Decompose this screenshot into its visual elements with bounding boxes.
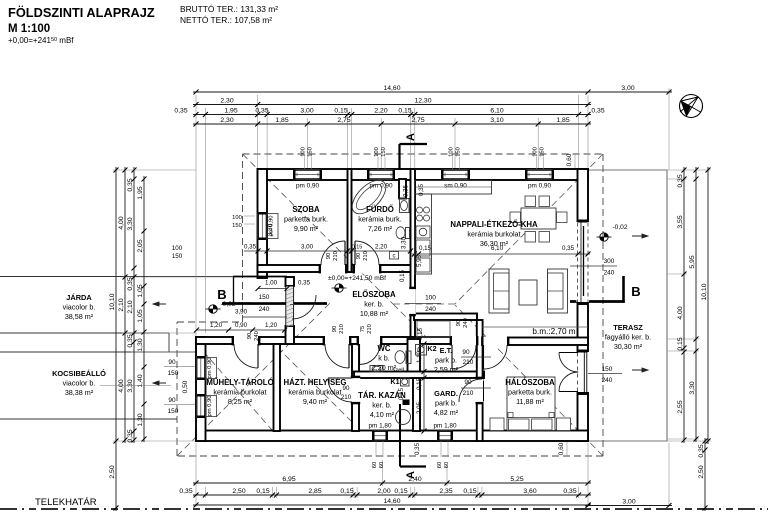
svg-text:3,00: 3,00 bbox=[622, 498, 635, 505]
svg-text:3,00: 3,00 bbox=[301, 244, 314, 251]
svg-text:3,30: 3,30 bbox=[127, 379, 134, 392]
svg-text:MŰHELY-TÁROLÓ: MŰHELY-TÁROLÓ bbox=[206, 378, 273, 387]
svg-text:3,30: 3,30 bbox=[127, 217, 134, 230]
svg-text:90: 90 bbox=[456, 320, 462, 326]
svg-text:150: 150 bbox=[456, 147, 462, 157]
svg-text:3,60: 3,60 bbox=[523, 488, 536, 495]
svg-text:3,00: 3,00 bbox=[300, 107, 313, 114]
svg-text:30,30 m²: 30,30 m² bbox=[614, 342, 643, 351]
svg-text:parketta burk.: parketta burk. bbox=[508, 388, 552, 397]
svg-text:100: 100 bbox=[533, 147, 539, 157]
svg-text:KOCSIBEÁLLÓ: KOCSIBEÁLLÓ bbox=[52, 369, 106, 378]
svg-text:5,25: 5,25 bbox=[510, 476, 523, 483]
svg-text:0,35: 0,35 bbox=[127, 334, 134, 347]
svg-text:210: 210 bbox=[341, 394, 352, 401]
svg-text:+0,00=+24150 mBf: +0,00=+24150 mBf bbox=[8, 36, 74, 45]
svg-text:150: 150 bbox=[602, 366, 613, 373]
svg-text:90: 90 bbox=[247, 333, 253, 339]
svg-text:210: 210 bbox=[363, 251, 369, 261]
svg-text:3,30: 3,30 bbox=[267, 223, 274, 236]
svg-text:90: 90 bbox=[462, 349, 470, 356]
svg-text:2,75: 2,75 bbox=[337, 117, 350, 124]
svg-text:1,05: 1,05 bbox=[137, 309, 144, 322]
svg-text:NETTÓ TER.: 107,58 m²: NETTÓ TER.: 107,58 m² bbox=[180, 15, 272, 25]
svg-text:240: 240 bbox=[259, 306, 270, 313]
svg-text:2,85: 2,85 bbox=[308, 488, 321, 495]
svg-text:0,15: 0,15 bbox=[334, 107, 347, 114]
svg-text:parketta burk.: parketta burk. bbox=[284, 215, 328, 224]
svg-text:HÁLÓSZOBA: HÁLÓSZOBA bbox=[505, 378, 555, 387]
svg-text:1,30: 1,30 bbox=[137, 413, 144, 426]
svg-text:park b.: park b. bbox=[435, 399, 457, 408]
svg-text:100: 100 bbox=[172, 245, 183, 252]
svg-text:150: 150 bbox=[168, 370, 179, 377]
svg-text:2,20: 2,20 bbox=[375, 244, 388, 251]
svg-text:0,15: 0,15 bbox=[398, 107, 411, 114]
svg-text:k b.: k b. bbox=[378, 354, 390, 363]
svg-text:100: 100 bbox=[232, 215, 242, 221]
svg-text:90: 90 bbox=[326, 253, 332, 259]
svg-text:1,95: 1,95 bbox=[137, 186, 144, 199]
svg-text:10,10: 10,10 bbox=[109, 293, 116, 310]
svg-text:FÖLDSZINTI ALAPRAJZ: FÖLDSZINTI ALAPRAJZ bbox=[8, 5, 155, 20]
svg-text:szell.: szell. bbox=[392, 368, 406, 374]
svg-text:1,05: 1,05 bbox=[137, 284, 144, 297]
svg-text:2,35: 2,35 bbox=[439, 488, 452, 495]
svg-text:100: 100 bbox=[425, 295, 436, 302]
svg-text:0,15: 0,15 bbox=[352, 245, 363, 251]
svg-text:0,35: 0,35 bbox=[403, 184, 410, 197]
svg-text:0,35: 0,35 bbox=[562, 245, 575, 252]
svg-text:90: 90 bbox=[356, 253, 362, 259]
svg-text:240: 240 bbox=[604, 270, 615, 277]
svg-text:0,35: 0,35 bbox=[179, 488, 192, 495]
svg-text:12,30: 12,30 bbox=[414, 97, 431, 104]
svg-text:38,38 m²: 38,38 m² bbox=[65, 388, 94, 397]
svg-text:0,15: 0,15 bbox=[463, 488, 476, 495]
svg-text:210: 210 bbox=[333, 251, 339, 261]
svg-text:0,15: 0,15 bbox=[677, 337, 684, 350]
svg-text:4,00: 4,00 bbox=[118, 216, 125, 229]
svg-text:±0,00=+241,50 mBf: ±0,00=+241,50 mBf bbox=[328, 275, 386, 282]
svg-text:K2: K2 bbox=[427, 344, 436, 353]
svg-text:2,30: 2,30 bbox=[220, 117, 233, 124]
svg-text:pm 0,90: pm 0,90 bbox=[296, 183, 320, 190]
svg-text:0,35: 0,35 bbox=[127, 277, 134, 290]
svg-text:M 1:100: M 1:100 bbox=[8, 23, 50, 35]
svg-text:B: B bbox=[631, 284, 640, 299]
svg-text:2,05: 2,05 bbox=[137, 239, 144, 252]
svg-text:0,15: 0,15 bbox=[416, 377, 423, 390]
svg-text:1,30: 1,30 bbox=[137, 338, 144, 351]
svg-text:14,60: 14,60 bbox=[383, 498, 400, 505]
svg-text:14,60: 14,60 bbox=[383, 85, 400, 92]
svg-text:38,58 m²: 38,58 m² bbox=[65, 312, 94, 321]
svg-text:210: 210 bbox=[463, 390, 474, 397]
svg-text:3,00: 3,00 bbox=[621, 85, 634, 92]
svg-text:0,35: 0,35 bbox=[414, 442, 421, 455]
svg-text:3,10: 3,10 bbox=[490, 117, 503, 124]
svg-text:0,35: 0,35 bbox=[591, 107, 604, 114]
svg-text:4,00: 4,00 bbox=[677, 306, 684, 319]
svg-text:ELŐSZOBA: ELŐSZOBA bbox=[352, 290, 396, 299]
svg-text:4,00: 4,00 bbox=[118, 379, 125, 392]
svg-text:TERASZ: TERASZ bbox=[613, 323, 643, 332]
svg-text:100: 100 bbox=[374, 147, 380, 157]
svg-text:0,15: 0,15 bbox=[417, 327, 424, 340]
svg-text:60: 60 bbox=[379, 462, 385, 468]
svg-text:1,85: 1,85 bbox=[275, 117, 288, 124]
svg-text:JÁRDA: JÁRDA bbox=[66, 293, 92, 302]
svg-text:viacolor b.: viacolor b. bbox=[63, 379, 96, 388]
svg-text:0,15: 0,15 bbox=[394, 488, 407, 495]
svg-text:75: 75 bbox=[360, 326, 366, 332]
svg-text:6,95: 6,95 bbox=[282, 476, 295, 483]
svg-text:2,00: 2,00 bbox=[377, 488, 390, 495]
svg-text:100: 100 bbox=[449, 147, 455, 157]
svg-text:pm 0,90: pm 0,90 bbox=[207, 396, 213, 417]
svg-text:0,35: 0,35 bbox=[298, 280, 311, 287]
svg-text:3,30: 3,30 bbox=[689, 381, 696, 394]
svg-text:150: 150 bbox=[232, 223, 242, 229]
svg-text:pm 0,90: pm 0,90 bbox=[528, 183, 552, 190]
svg-text:150: 150 bbox=[540, 147, 546, 157]
svg-text:150: 150 bbox=[308, 147, 314, 157]
svg-text:2,50: 2,50 bbox=[232, 488, 245, 495]
svg-text:0,15: 0,15 bbox=[399, 269, 406, 282]
svg-text:240: 240 bbox=[254, 331, 260, 341]
svg-text:kerámia burkolat: kerámia burkolat bbox=[467, 230, 520, 239]
svg-text:kerámia burkolat: kerámia burkolat bbox=[213, 388, 266, 397]
svg-text:240: 240 bbox=[602, 377, 613, 384]
svg-text:2,30: 2,30 bbox=[220, 97, 233, 104]
svg-text:b.m.:2,70 m: b.m.:2,70 m bbox=[532, 327, 575, 336]
svg-text:A: A bbox=[405, 133, 417, 141]
svg-text:2,55: 2,55 bbox=[677, 400, 684, 413]
svg-text:240: 240 bbox=[425, 306, 436, 313]
svg-text:1,20: 1,20 bbox=[265, 322, 278, 329]
svg-text:0,15: 0,15 bbox=[256, 488, 269, 495]
svg-text:HÁZT. HELYISÉG: HÁZT. HELYISÉG bbox=[284, 378, 347, 387]
svg-text:2,10: 2,10 bbox=[118, 298, 125, 311]
svg-text:3,90: 3,90 bbox=[235, 309, 248, 316]
svg-text:0,15: 0,15 bbox=[340, 488, 353, 495]
svg-text:4,10 m²: 4,10 m² bbox=[370, 410, 395, 419]
svg-text:60: 60 bbox=[444, 462, 450, 468]
svg-text:90: 90 bbox=[168, 397, 176, 404]
svg-text:0,35: 0,35 bbox=[677, 174, 684, 187]
svg-text:TELEKHATÁR: TELEKHATÁR bbox=[35, 497, 97, 508]
svg-text:sm 0,90: sm 0,90 bbox=[444, 183, 467, 190]
svg-text:150: 150 bbox=[172, 253, 183, 260]
svg-text:210: 210 bbox=[339, 324, 345, 334]
svg-text:WC: WC bbox=[378, 344, 391, 353]
svg-text:c: c bbox=[393, 254, 396, 260]
svg-text:park b.: park b. bbox=[435, 356, 457, 365]
svg-text:2,75: 2,75 bbox=[411, 117, 424, 124]
svg-text:3,55: 3,55 bbox=[677, 215, 684, 228]
svg-text:TÁR. KAZÁN: TÁR. KAZÁN bbox=[358, 391, 406, 400]
svg-text:60: 60 bbox=[372, 462, 378, 468]
svg-text:pm 1,80: pm 1,80 bbox=[368, 423, 392, 430]
svg-text:0,50: 0,50 bbox=[182, 380, 189, 393]
svg-text:90: 90 bbox=[332, 326, 338, 332]
svg-text:0,35: 0,35 bbox=[255, 107, 268, 114]
svg-text:ker. b.: ker. b. bbox=[364, 300, 384, 309]
svg-text:240: 240 bbox=[463, 318, 469, 328]
svg-text:pm 0,90: pm 0,90 bbox=[207, 358, 213, 379]
svg-text:3,30: 3,30 bbox=[401, 236, 408, 249]
svg-text:1,85: 1,85 bbox=[556, 117, 569, 124]
svg-text:K1: K1 bbox=[390, 377, 399, 386]
svg-text:ker. b.: ker. b. bbox=[372, 401, 392, 410]
svg-text:kerámia burk.: kerámia burk. bbox=[358, 215, 402, 224]
svg-text:BRUTTÓ TER.: 131,33 m²: BRUTTÓ TER.: 131,33 m² bbox=[180, 4, 278, 14]
svg-text:150: 150 bbox=[381, 147, 387, 157]
svg-text:36,30 m²: 36,30 m² bbox=[480, 239, 509, 248]
svg-text:0,35: 0,35 bbox=[244, 244, 257, 251]
svg-text:NAPPALI-ÉTKEZŐ-KHA: NAPPALI-ÉTKEZŐ-KHA bbox=[450, 220, 538, 229]
svg-text:60: 60 bbox=[437, 462, 443, 468]
svg-text:0,35: 0,35 bbox=[698, 444, 705, 457]
svg-text:9,90 m²: 9,90 m² bbox=[294, 224, 319, 233]
svg-text:-0,02: -0,02 bbox=[612, 224, 627, 231]
svg-text:300: 300 bbox=[604, 258, 615, 265]
svg-text:0,35: 0,35 bbox=[127, 178, 134, 191]
svg-text:90: 90 bbox=[168, 359, 176, 366]
svg-text:4,82 m²: 4,82 m² bbox=[434, 408, 459, 417]
svg-text:150: 150 bbox=[168, 408, 179, 415]
svg-text:viacolor b.: viacolor b. bbox=[63, 303, 96, 312]
svg-text:FÜRDŐ: FÜRDŐ bbox=[366, 205, 394, 214]
svg-text:1,20: 1,20 bbox=[210, 322, 223, 329]
svg-text:0,60: 0,60 bbox=[566, 153, 573, 166]
svg-text:6,10: 6,10 bbox=[490, 107, 503, 114]
svg-text:8,25 m²: 8,25 m² bbox=[228, 397, 253, 406]
svg-text:90: 90 bbox=[464, 379, 472, 386]
svg-text:2,20: 2,20 bbox=[374, 107, 387, 114]
svg-text:2,05: 2,05 bbox=[416, 401, 423, 414]
svg-text:B: B bbox=[217, 287, 226, 302]
svg-text:11,88 m²: 11,88 m² bbox=[516, 397, 544, 406]
svg-text:2,10: 2,10 bbox=[127, 300, 134, 313]
svg-text:fagyálló ker. b.: fagyálló ker. b. bbox=[605, 333, 651, 342]
svg-text:0,35: 0,35 bbox=[563, 488, 576, 495]
svg-text:1,95: 1,95 bbox=[224, 107, 237, 114]
svg-text:E.T.: E.T. bbox=[440, 346, 453, 355]
svg-text:9,40 m²: 9,40 m² bbox=[303, 397, 328, 406]
svg-text:A: A bbox=[405, 471, 417, 479]
svg-text:10,10: 10,10 bbox=[701, 283, 708, 300]
svg-text:7,26 m²: 7,26 m² bbox=[368, 224, 393, 233]
svg-text:0,35: 0,35 bbox=[174, 107, 187, 114]
svg-text:10,88 m²: 10,88 m² bbox=[360, 309, 389, 318]
svg-text:5,95: 5,95 bbox=[689, 255, 696, 268]
svg-text:210: 210 bbox=[463, 359, 474, 366]
svg-text:2,59 m²: 2,59 m² bbox=[434, 365, 459, 374]
svg-text:GARD.: GARD. bbox=[434, 389, 458, 398]
svg-text:210: 210 bbox=[367, 324, 373, 334]
svg-text:pm 1,80: pm 1,80 bbox=[433, 423, 457, 430]
svg-text:SZOBA: SZOBA bbox=[292, 205, 320, 214]
svg-text:0,90: 0,90 bbox=[235, 322, 248, 329]
svg-text:2,50: 2,50 bbox=[698, 465, 705, 478]
svg-text:1,00: 1,00 bbox=[265, 280, 278, 287]
svg-text:150: 150 bbox=[259, 294, 270, 301]
svg-text:kerámia burkolat: kerámia burkolat bbox=[288, 388, 341, 397]
svg-text:100: 100 bbox=[301, 147, 307, 157]
svg-text:-0,02: -0,02 bbox=[220, 301, 235, 308]
svg-text:2,50: 2,50 bbox=[109, 465, 116, 478]
svg-text:0,35: 0,35 bbox=[127, 429, 134, 442]
svg-text:0,60: 0,60 bbox=[558, 442, 565, 455]
